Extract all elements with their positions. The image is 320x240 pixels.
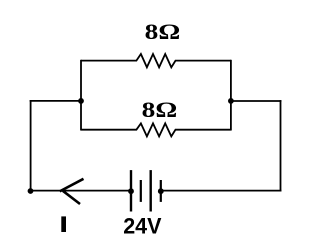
svg-text:8Ω: 8Ω [142, 97, 178, 122]
svg-text:24V: 24V [123, 214, 162, 239]
svg-text:8Ω: 8Ω [145, 19, 181, 44]
